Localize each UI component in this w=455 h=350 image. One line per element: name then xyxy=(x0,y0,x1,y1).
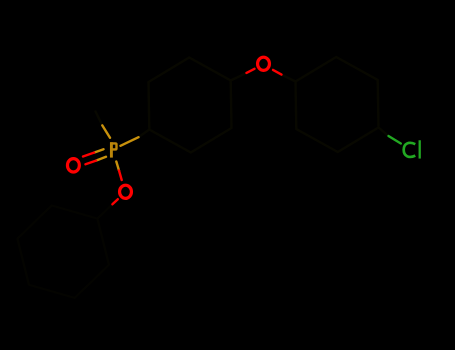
bond O2-C(ring C) bright stub at O2 xyxy=(112,199,117,204)
atom P (phosphorus) xyxy=(111,142,116,157)
atom O1 (phosphoryl oxygen) xyxy=(67,159,79,172)
bond O3-C(ring B) bright stub at O3 xyxy=(273,70,282,75)
atom O3 (ether oxygen) xyxy=(258,57,270,70)
benzene ring A (central, 1,4-disubstituted) xyxy=(149,58,232,153)
wire O3 to ring A carbon half (dim) xyxy=(231,73,247,81)
wire methyl carbon half (dim) xyxy=(96,112,103,126)
double bond P=O1 lower line xyxy=(96,157,106,161)
bond C(ring B)-Cl bright stub at Cl xyxy=(389,136,401,144)
wire O3 to ring B carbon half (dim) xyxy=(282,75,296,82)
atom O2 (ester oxygen) xyxy=(120,185,132,198)
wire O2 to ring C carbon half (dim) xyxy=(97,204,112,219)
benzene ring C (bottom-left phenoxy) xyxy=(17,206,109,298)
wire Cl bond carbon half (dim) xyxy=(379,128,389,137)
double bond P=O1 upper line xyxy=(94,149,104,152)
wire P to ring A carbon half (dim) xyxy=(139,130,150,138)
bond P-C(ring A) bright stub at P xyxy=(121,137,139,146)
bond O3-C(ring A) bright stub at O3 xyxy=(247,69,255,73)
bond P-O2 (ester) xyxy=(116,162,119,171)
benzene ring B (right, 4-chlorophenyl) xyxy=(296,57,379,152)
atom Cl (chlorine) xyxy=(404,141,420,157)
bond P-CH3 bright stub at P xyxy=(102,125,110,137)
